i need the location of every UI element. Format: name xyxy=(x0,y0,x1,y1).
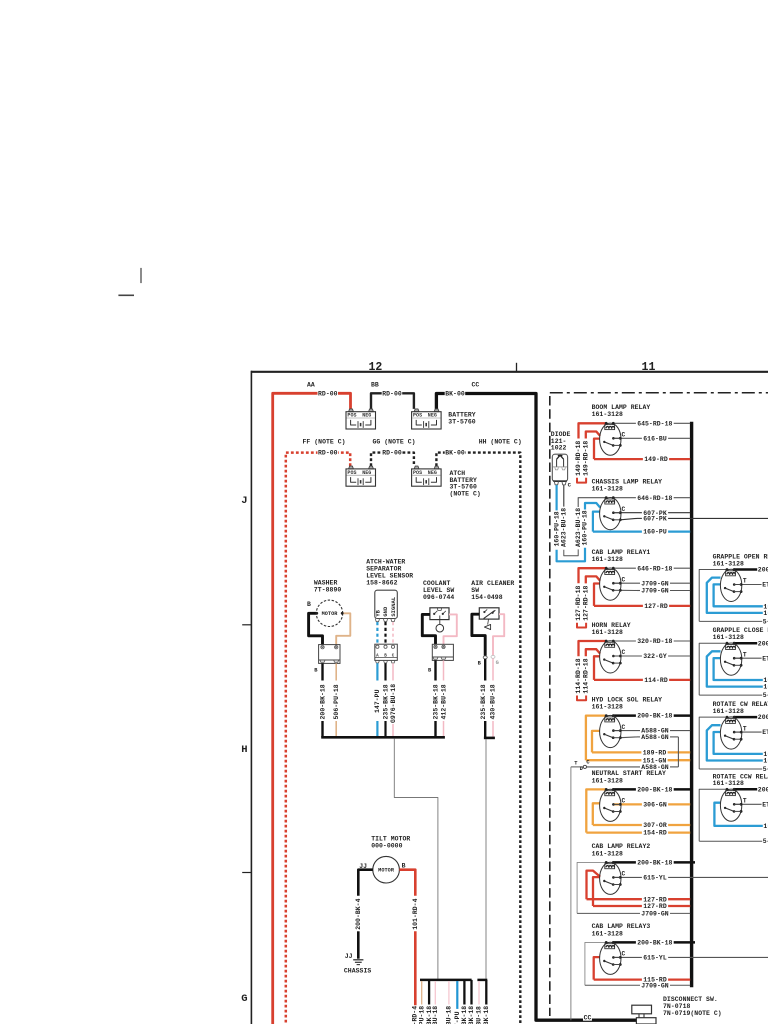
svg-text:J709-GN: J709-GN xyxy=(641,580,668,587)
wire 200-BK-4 tilt motor to chassis ground xyxy=(358,870,373,896)
row divider tick J/H xyxy=(242,624,251,626)
svg-text:5: 5 xyxy=(763,766,767,773)
relay symbol xyxy=(600,862,621,894)
wire 320-RD-18 to bus xyxy=(613,640,636,642)
svg-text:BB: BB xyxy=(371,381,379,388)
wire washer motor black lead xyxy=(309,613,323,644)
svg-text:646-RD-18: 646-RD-18 xyxy=(637,565,672,572)
svg-text:CC: CC xyxy=(472,381,480,388)
svg-text:616-BU: 616-BU xyxy=(643,435,667,442)
relay GRAPPLE OPEN RELAY 161-3128 xyxy=(699,554,768,626)
svg-text:CC: CC xyxy=(584,1015,592,1022)
svg-text:235-BK-18: 235-BK-18 xyxy=(461,1006,468,1024)
svg-text:LEVEL SENSOR: LEVEL SENSOR xyxy=(366,572,413,579)
svg-text:AA: AA xyxy=(307,381,315,388)
wire G976-BU-18 sensor to ground bus xyxy=(392,663,394,680)
svg-text:430-BU-18: 430-BU-18 xyxy=(446,1006,453,1024)
svg-text:096-0744: 096-0744 xyxy=(423,594,454,601)
svg-text:200-BK-4: 200-BK-4 xyxy=(355,898,362,929)
svg-text:645-RD-18: 645-RD-18 xyxy=(637,420,672,427)
row divider tick H/G xyxy=(242,872,251,874)
svg-text:114-RD-18: 114-RD-18 xyxy=(575,658,582,693)
svg-text:SIGNAL: SIGNAL xyxy=(391,597,397,617)
svg-text:200-: 200- xyxy=(758,786,768,793)
relay HYD LOCK SOL RELAY 161-3128 xyxy=(571,696,690,1020)
washer connector xyxy=(319,645,340,664)
svg-text:127-RD: 127-RD xyxy=(643,903,667,910)
wire A623-BU-18 corner at relay top xyxy=(578,498,606,507)
sensor pins xyxy=(375,619,379,622)
wire 200-BK-18 to bus (thick) xyxy=(613,714,636,717)
svg-text:160-PU-18: 160-PU-18 xyxy=(553,511,560,546)
svg-text:607-PK: 607-PK xyxy=(643,516,667,523)
wire 200-BK-18 to bus (thick) xyxy=(613,861,636,864)
wire BU-18 xyxy=(434,981,436,1005)
wire A623-BU-18 diode pin to chassis lamp relay top xyxy=(563,485,565,507)
box outline xyxy=(699,717,727,769)
coolant level switch body xyxy=(430,608,449,620)
svg-text:306-GN: 306-GN xyxy=(643,802,667,809)
svg-text:200-BK-18: 200-BK-18 xyxy=(637,860,672,867)
svg-text:DIODE: DIODE xyxy=(551,431,571,438)
svg-text:158-8662: 158-8662 xyxy=(366,579,397,586)
svg-text:G976-BU-18: G976-BU-18 xyxy=(476,1006,483,1024)
svg-text:TILT MOTOR: TILT MOTOR xyxy=(371,836,410,843)
svg-text:147-PU: 147-PU xyxy=(374,689,381,713)
svg-text:A588-GN: A588-GN xyxy=(641,734,668,741)
wire J709-GN to bus xyxy=(613,582,640,584)
svg-text:JJ: JJ xyxy=(345,953,353,960)
svg-text:ATCH-WATER: ATCH-WATER xyxy=(366,558,405,565)
svg-text:CAB LAMP RELAY1: CAB LAMP RELAY1 xyxy=(592,549,651,556)
relay CAB LAMP RELAY2 161-3128 xyxy=(577,843,768,917)
air cleaner element symbol xyxy=(487,619,490,625)
svg-text:430-BU-18: 430-BU-18 xyxy=(489,684,496,719)
wire BU-18 second xyxy=(448,981,450,1005)
svg-text:161-3128: 161-3128 xyxy=(592,486,623,493)
svg-text:412-BU-18: 412-BU-18 xyxy=(432,1006,439,1024)
svg-text:235-BK-18: 235-BK-18 xyxy=(382,684,389,719)
svg-text:235-BK-18: 235-BK-18 xyxy=(480,684,487,719)
svg-text:BATTERY: BATTERY xyxy=(448,411,475,418)
svg-text:000-0000: 000-0000 xyxy=(371,843,402,850)
relay symbol xyxy=(600,715,621,747)
wire 235-BK-18 sensor to ground bus xyxy=(384,663,386,680)
relay symbol xyxy=(600,497,621,529)
svg-text:154-0498: 154-0498 xyxy=(471,594,502,601)
wire 646-RD-18 to bus xyxy=(613,497,636,499)
svg-text:161-3128: 161-3128 xyxy=(592,850,623,857)
svg-text:307-OR: 307-OR xyxy=(643,822,667,829)
svg-text:CAB LAMP RELAY3: CAB LAMP RELAY3 xyxy=(592,923,651,930)
svg-text:CHASSIS: CHASSIS xyxy=(344,967,371,974)
wire 616-BU to bus xyxy=(613,437,642,439)
svg-text:ET: ET xyxy=(762,582,768,589)
ground bus stub (air cleaner) xyxy=(484,737,495,740)
svg-text:412-BU-18: 412-BU-18 xyxy=(440,684,447,719)
svg-text:G: G xyxy=(496,660,499,666)
wire 306-GN to bus (orange) xyxy=(613,803,642,805)
frame top border xyxy=(251,371,768,373)
svg-text:615-YL: 615-YL xyxy=(643,955,667,962)
svg-text:1: 1 xyxy=(763,823,767,830)
sensor connector A B C xyxy=(375,644,398,660)
wire thin gray down to CC line xyxy=(570,767,572,1020)
wire J709-GN second to bus xyxy=(620,589,637,591)
svg-text:HH (NOTE C): HH (NOTE C) xyxy=(479,438,522,445)
svg-text:C: C xyxy=(622,724,626,731)
svg-text:1: 1 xyxy=(763,684,767,691)
wire BK-18 fifth (bar end corner) xyxy=(485,980,487,1005)
svg-text:RD-00: RD-00 xyxy=(318,390,338,397)
svg-text:WASHER: WASHER xyxy=(314,580,338,587)
svg-text:T: T xyxy=(743,651,747,658)
svg-text:127-RD: 127-RD xyxy=(644,603,668,610)
svg-text:7N-0719(NOTE C): 7N-0719(NOTE C) xyxy=(663,1010,722,1017)
svg-text:BK-00: BK-00 xyxy=(445,450,465,457)
wire 645-RD-18 to bus xyxy=(613,422,636,424)
registration mark vertical xyxy=(140,268,142,283)
svg-text:A623-BU-18: A623-BU-18 xyxy=(561,508,568,547)
battery BAT4 (ATCH) xyxy=(412,466,442,486)
wire GG RD-00 dashed battery3 NEG to battery4 POS xyxy=(371,453,414,467)
relay symbol xyxy=(600,942,621,974)
wire A588-GN from lower contact, loops down xyxy=(620,736,637,739)
svg-text:T: T xyxy=(743,798,747,805)
svg-text:G: G xyxy=(241,993,247,1005)
battery BAT1 xyxy=(346,409,376,429)
wire 307-OR inner orange xyxy=(593,803,600,825)
svg-text:12: 12 xyxy=(368,361,382,374)
diode element xyxy=(556,459,558,467)
svg-text:160-PU: 160-PU xyxy=(643,529,667,536)
svg-text:AIR CLEANER: AIR CLEANER xyxy=(471,580,514,587)
svg-text:COOLANT: COOLANT xyxy=(423,580,450,587)
sensor body 158-8662 xyxy=(375,590,398,618)
svg-text:147-PU: 147-PU xyxy=(454,1011,461,1024)
svg-text:C: C xyxy=(622,432,626,439)
wire air stub to bottom manifold (thin) xyxy=(485,739,487,979)
svg-text:235-BK-18: 235-BK-18 xyxy=(483,1006,490,1024)
box outline xyxy=(699,789,727,841)
svg-text:101-RD-4: 101-RD-4 xyxy=(412,898,419,929)
battery BAT3 (ATCH) xyxy=(346,466,376,486)
battery BAT2 xyxy=(412,409,442,429)
svg-text:200-BK-18: 200-BK-18 xyxy=(637,787,672,794)
box outline xyxy=(699,643,727,695)
svg-text:161-3128: 161-3128 xyxy=(713,634,744,641)
svg-text:BOOM LAMP RELAY: BOOM LAMP RELAY xyxy=(592,404,651,411)
svg-text:7T-8890: 7T-8890 xyxy=(314,587,341,594)
svg-text:T: T xyxy=(743,725,747,732)
svg-text:160-PU-18: 160-PU-18 xyxy=(582,510,589,545)
wire 235-BK-18 air cleaner to stub bus xyxy=(484,659,486,681)
relay BOOM LAMP RELAY 161-3128 xyxy=(575,404,690,483)
svg-text:RD-00: RD-00 xyxy=(382,450,402,457)
svg-text:MOTOR: MOTOR xyxy=(378,868,395,874)
node CC label at disconnect xyxy=(583,1015,592,1021)
wire FF RD-00 dashed + left dashed red bus xyxy=(286,453,350,1024)
svg-text:1: 1 xyxy=(763,677,767,684)
wire 506-PU-18 washer to ground bus xyxy=(335,663,337,680)
bus 200-BK main vertical bus xyxy=(690,422,693,987)
wire 114-RD to bus xyxy=(594,656,600,680)
relay CAB LAMP RELAY1 161-3128 xyxy=(575,549,690,628)
wire HH BK-00 dashed to right dashed bus xyxy=(436,453,520,1024)
svg-text:5: 5 xyxy=(763,838,767,845)
svg-text:J709-GN: J709-GN xyxy=(641,911,668,918)
wire PU-18 xyxy=(421,981,423,1005)
svg-text:1: 1 xyxy=(763,751,767,758)
box outline (thin) xyxy=(577,862,606,913)
svg-text:200-BK-18: 200-BK-18 xyxy=(637,940,672,947)
svg-text:320-RD-18: 320-RD-18 xyxy=(637,638,672,645)
wire 160-PU-18 feed outer blue xyxy=(585,503,600,510)
svg-text:B: B xyxy=(307,601,311,608)
svg-text:B: B xyxy=(384,655,387,659)
svg-text:G976-BU-18: G976-BU-18 xyxy=(390,684,397,723)
coolant float xyxy=(439,616,441,625)
svg-text:189-RD: 189-RD xyxy=(643,750,667,757)
svg-text:506-PU-18: 506-PU-18 xyxy=(333,684,340,719)
svg-text:SEPARATOR: SEPARATOR xyxy=(366,565,401,572)
svg-text:C: C xyxy=(622,871,626,878)
wire 160-PU-18 diode pin to chassis lamp relay xyxy=(555,485,557,510)
wire 127-RD-18 feed outer xyxy=(579,568,607,583)
svg-text:161-3128: 161-3128 xyxy=(592,629,623,636)
bottom connector manifold bar xyxy=(420,979,472,982)
section boundary dash-dot horizontal xyxy=(550,392,768,394)
relay symbol xyxy=(600,568,621,600)
wire BK-18 third xyxy=(463,981,465,1005)
svg-text:11: 11 xyxy=(642,361,656,374)
svg-text:GG (NOTE C): GG (NOTE C) xyxy=(373,438,416,445)
svg-text:1: 1 xyxy=(763,758,767,765)
svg-text:ET: ET xyxy=(762,729,768,736)
svg-text:RD-00: RD-00 xyxy=(382,390,402,397)
svg-text:1022: 1022 xyxy=(551,445,567,452)
wire 646-RD-18 to bus xyxy=(613,567,636,569)
svg-text:GND: GND xyxy=(383,606,389,617)
svg-text:RD-00: RD-00 xyxy=(318,450,338,457)
svg-text:149-RD-18: 149-RD-18 xyxy=(582,441,589,476)
wire 607-PK to bus xyxy=(613,512,642,514)
svg-text:235-BK-18: 235-BK-18 xyxy=(432,684,439,719)
wire 151-GN outer orange xyxy=(586,716,606,761)
svg-text:LEVEL SW: LEVEL SW xyxy=(423,587,454,594)
washer motor M (dashed circle) xyxy=(316,600,342,626)
wire 412-BU-18 coolant to ground bus xyxy=(443,660,445,680)
svg-text:149-RD: 149-RD xyxy=(644,456,668,463)
svg-text:HORN RELAY: HORN RELAY xyxy=(592,622,631,629)
air cleaner pin B xyxy=(483,656,487,659)
registration mark horizontal xyxy=(118,294,134,296)
svg-text:1: 1 xyxy=(763,610,767,617)
svg-text:200-: 200- xyxy=(758,640,768,647)
relay NEUTRAL START RELAY 161-3128 xyxy=(586,770,690,837)
wire A588-GN to bus xyxy=(613,730,640,732)
svg-text:161-3128: 161-3128 xyxy=(592,556,623,563)
wire air cleaner pink lead xyxy=(493,614,504,655)
svg-text:T: T xyxy=(743,578,747,585)
section boundary dashed vertical xyxy=(549,396,551,1016)
svg-text:7N-0718: 7N-0718 xyxy=(663,1003,690,1010)
svg-text:161-3128: 161-3128 xyxy=(713,780,744,787)
svg-text:5: 5 xyxy=(763,692,767,699)
svg-text:ET: ET xyxy=(762,801,768,808)
svg-text:200-BK-18: 200-BK-18 xyxy=(637,713,672,720)
svg-text:161-3128: 161-3128 xyxy=(713,560,744,567)
wire BK-18 xyxy=(428,981,430,1005)
ground bus (sensors) xyxy=(321,736,445,739)
svg-text:200-: 200- xyxy=(758,567,768,574)
wire 615-YL crossing to right edge xyxy=(613,876,642,878)
wire BK-18 fourth (bar end corner) xyxy=(470,980,472,1005)
svg-text:149-RD-18: 149-RD-18 xyxy=(575,441,582,476)
wire sensor dashed leads xyxy=(376,622,378,644)
wire 154-RD outer orange xyxy=(586,789,606,832)
air cleaner switch body xyxy=(479,608,499,619)
svg-text:646-RD-18: 646-RD-18 xyxy=(637,495,672,502)
svg-text:HYD LOCK SOL RELAY: HYD LOCK SOL RELAY xyxy=(592,696,663,703)
wire J709-GN box bottom to bus xyxy=(577,912,640,914)
wire 127-RD outer xyxy=(587,871,601,900)
svg-text:161-3128: 161-3128 xyxy=(592,777,623,784)
svg-text:A623-BU-18: A623-BU-18 xyxy=(575,508,582,547)
wire coolant pink lead xyxy=(444,614,457,644)
coolant connector xyxy=(432,644,453,660)
wire BB RD-00 battery1 NEG to battery2 POS xyxy=(371,393,414,409)
wire 114-RD-18 feed outer xyxy=(579,641,607,656)
wire 160-PU feed inner blue + bottom to bus xyxy=(593,512,600,532)
relay CHASSIS LAMP RELAY 161-3128 xyxy=(578,479,768,536)
relay ROTATE CW RELAY 161-3128 xyxy=(699,701,768,773)
relay CAB LAMP RELAY3 161-3128 xyxy=(585,923,768,989)
wire 235-BK-18 coolant to ground bus xyxy=(434,660,436,680)
relay GRAPPLE CLOSE RELAY 161-3128 xyxy=(699,627,768,699)
wire 115-RD feed xyxy=(594,957,600,980)
wire 200-BK-18 to bus (thick) xyxy=(613,941,636,944)
svg-text:161-3128: 161-3128 xyxy=(713,708,744,715)
svg-text:161-3128: 161-3128 xyxy=(592,930,623,937)
svg-text:101-RD-4: 101-RD-4 xyxy=(411,1006,418,1024)
svg-text:322-GY: 322-GY xyxy=(643,653,667,660)
wire 322-GY to bus xyxy=(613,655,642,657)
svg-text:C: C xyxy=(622,576,626,583)
svg-text:127-RD-18: 127-RD-18 xyxy=(582,585,589,620)
column divider tick xyxy=(516,363,518,372)
wire A588-GN bottom with T C D junction xyxy=(587,766,641,768)
wire 615-YL crossing to right edge xyxy=(613,956,642,958)
svg-text:115-RD: 115-RD xyxy=(643,977,667,984)
wire 607-PK crossing to right edge xyxy=(620,518,637,519)
svg-text:114-RD-18: 114-RD-18 xyxy=(582,658,589,693)
svg-text:A: A xyxy=(376,655,379,659)
svg-text:C: C xyxy=(622,649,626,656)
svg-text:J709-GN: J709-GN xyxy=(641,588,668,595)
wire 200-BK-18 washer to ground bus xyxy=(321,663,323,680)
svg-text:SW: SW xyxy=(471,587,479,594)
relay ROTATE CCW RELAY 161-3128 xyxy=(699,773,768,845)
svg-text:114-RD: 114-RD xyxy=(644,677,668,684)
box outline (thin) xyxy=(585,942,606,985)
wire 149-RD-18 feed inner xyxy=(586,432,600,439)
svg-text:C: C xyxy=(622,798,626,805)
wire AA RD-00 (battery feed + left red bus) xyxy=(273,393,351,1024)
tilt motor M xyxy=(373,856,400,883)
svg-text:C: C xyxy=(568,482,572,489)
svg-text:YB: YB xyxy=(375,609,381,616)
svg-text:(NOTE C): (NOTE C) xyxy=(450,490,481,497)
wire 147-PU sensor to ground bus xyxy=(376,663,378,680)
wire ground bus to bottom manifold (thin) xyxy=(394,738,438,978)
relay symbol xyxy=(600,789,621,821)
wire 127-RD-18 feed inner xyxy=(586,576,600,583)
svg-text:MOTOR: MOTOR xyxy=(322,611,339,617)
wire CC BK-00 thick battery cable to disconnect switch xyxy=(436,394,636,1021)
svg-text:BK-00: BK-00 xyxy=(445,391,465,398)
svg-text:H: H xyxy=(241,744,247,756)
svg-text:C: C xyxy=(622,951,626,958)
svg-text:3T-5760: 3T-5760 xyxy=(448,419,475,426)
svg-text:C: C xyxy=(622,506,626,513)
wire washer motor tan lead 506-PU-18 xyxy=(336,613,350,644)
svg-text:DISCONNECT SW.: DISCONNECT SW. xyxy=(663,996,718,1003)
svg-text:J: J xyxy=(241,495,247,507)
svg-text:161-3128: 161-3128 xyxy=(592,704,623,711)
ground symbol CHASSIS xyxy=(353,959,363,961)
disconnect switch symbol xyxy=(632,1005,652,1014)
svg-text:NEUTRAL START RELAY: NEUTRAL START RELAY xyxy=(592,770,666,777)
wire 149-RD-18 feed outer xyxy=(579,423,607,438)
svg-text:CAB LAMP RELAY2: CAB LAMP RELAY2 xyxy=(592,843,651,850)
svg-text:200-: 200- xyxy=(758,714,768,721)
wire 430-BU-18 air cleaner to stub bus xyxy=(492,658,494,680)
svg-text:154-RD: 154-RD xyxy=(643,830,667,837)
wire BU-18 third xyxy=(478,981,480,1005)
relay HORN RELAY 161-3128 xyxy=(575,622,690,701)
wire 127-RD inner xyxy=(593,877,600,906)
relay symbol xyxy=(600,423,621,455)
svg-text:506-PU-18: 506-PU-18 xyxy=(418,1006,425,1024)
svg-text:C: C xyxy=(392,655,395,659)
svg-text:FF (NOTE C): FF (NOTE C) xyxy=(303,438,346,445)
svg-text:161-3128: 161-3128 xyxy=(592,411,623,418)
svg-text:615-YL: 615-YL xyxy=(643,875,667,882)
svg-text:1: 1 xyxy=(763,603,767,610)
wire 114-RD-18 feed inner xyxy=(586,649,600,656)
svg-text:CHASSIS LAMP RELAY: CHASSIS LAMP RELAY xyxy=(592,479,663,486)
air cleaner pin G xyxy=(491,655,495,658)
wire 149-RD to bus xyxy=(594,439,600,460)
svg-text:ATCH: ATCH xyxy=(450,470,466,477)
svg-text:235-BK-18: 235-BK-18 xyxy=(468,1006,475,1024)
svg-text:ET: ET xyxy=(762,655,768,662)
wire coolant black lead xyxy=(422,614,435,644)
wire 200-BK-18 to bus (thick) xyxy=(613,788,636,791)
wire air cleaner black lead xyxy=(472,614,485,656)
wire J709-GN box bottom to bus xyxy=(585,984,640,986)
relay symbol xyxy=(600,641,621,673)
box outline xyxy=(699,570,727,622)
svg-text:127-RD-18: 127-RD-18 xyxy=(575,585,582,620)
wire 127-RD to bus xyxy=(594,584,600,606)
wire -PU blue xyxy=(456,981,458,1009)
svg-text:200-BK-18: 200-BK-18 xyxy=(319,684,326,719)
wire 189-RD inner orange xyxy=(592,731,600,753)
svg-text:5: 5 xyxy=(763,618,767,625)
wire 101-RD-4 tilt motor down xyxy=(399,870,415,896)
